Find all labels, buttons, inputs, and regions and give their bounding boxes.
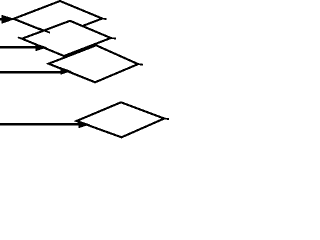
diamond D4 bbox=[77, 102, 165, 137]
arrow A2 shaft bbox=[0, 46, 38, 48]
stub at right vertex of D1 bbox=[102, 18, 106, 21]
stub at left vertex of D2 bbox=[18, 37, 22, 38]
stub at right vertex of D4 bbox=[164, 118, 169, 121]
arrow A1 shaft bbox=[0, 18, 3, 20]
arrow A4 head bbox=[79, 121, 91, 129]
diamond D2 bbox=[22, 21, 111, 56]
diagram: cascade of flowchart decision diamonds bbox=[0, 0, 169, 141]
stub at right vertex of D2 bbox=[111, 37, 116, 40]
arrow A4 shaft bbox=[0, 123, 80, 125]
wire: visible tail of D1 lower-left edge crossing D2 edge bbox=[38, 28, 50, 33]
arrow A1 head bbox=[2, 15, 16, 24]
diamond D3 bbox=[49, 45, 139, 82]
arrow A2 head bbox=[36, 44, 48, 52]
diamond D1 bbox=[14, 1, 103, 36]
arrow A3 shaft bbox=[0, 71, 62, 74]
arrow A3 head bbox=[60, 67, 71, 75]
stub at right vertex of D3 bbox=[138, 63, 143, 66]
